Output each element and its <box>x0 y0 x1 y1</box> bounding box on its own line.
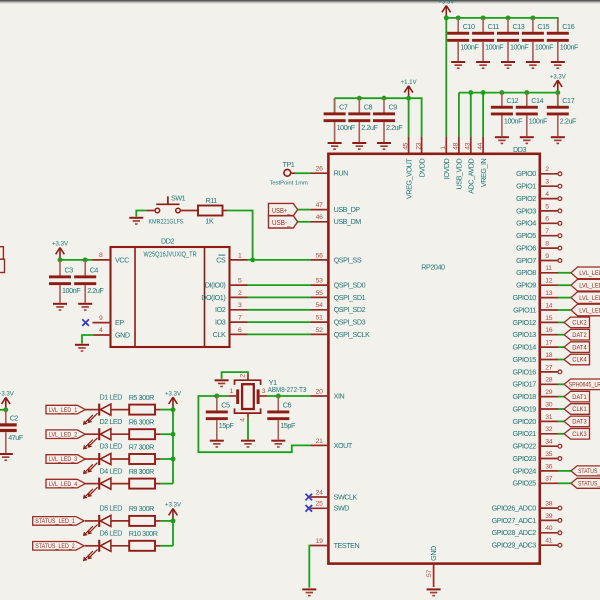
svg-text:GPIO1: GPIO1 <box>516 182 536 191</box>
svg-text:100nF: 100nF <box>460 43 479 52</box>
flag LVL_LED_2 <box>46 430 85 439</box>
flag USB-_ <box>269 216 298 228</box>
svg-text:100nF: 100nF <box>560 43 579 52</box>
svg-text:D1 LED: D1 LED <box>100 392 123 401</box>
flash pin 9 EP with no-connect cross <box>82 315 124 327</box>
RP2040 right pin 13 GPIO10 <box>513 290 558 302</box>
svg-text:+3.3V: +3.3V <box>165 502 182 509</box>
wire + flag CLK3 <box>558 429 590 440</box>
svg-text:52: 52 <box>316 327 323 334</box>
junction <box>171 432 176 437</box>
svg-text:DAT4: DAT4 <box>572 344 587 351</box>
svg-text:47uF: 47uF <box>8 433 24 442</box>
RP2040 right pin 16 GPIO13 <box>513 327 558 339</box>
RP2040 right pin 31 GPIO20 <box>513 414 558 426</box>
power symbol +1.1V supply <box>401 79 418 98</box>
svg-text:D4 LED: D4 LED <box>100 466 123 475</box>
junction <box>382 96 387 101</box>
svg-text:SW1: SW1 <box>171 193 186 202</box>
wire + flag LVL_LED_4 <box>558 304 600 316</box>
svg-text:46: 46 <box>316 214 323 221</box>
RP2040 right pin 4 GPIO2 <box>516 191 558 203</box>
wire down to VREG_IN pin 44 <box>482 93 484 137</box>
RP2040 right pin 28 GPIO17 <box>513 377 558 389</box>
svg-text:4: 4 <box>99 327 103 334</box>
svg-text:GPIO25: GPIO25 <box>513 479 537 488</box>
svg-text:R10 300R: R10 300R <box>129 529 158 538</box>
junction <box>530 15 535 20</box>
RP2040 right pin 15 GPIO12 <box>513 315 558 327</box>
wire crystal pin3 to XIN <box>267 395 310 397</box>
capacitor C16 100nF <box>547 18 579 61</box>
ground <box>451 61 465 69</box>
svg-text:C15: C15 <box>537 22 549 31</box>
RP2040 right pin 5 GPIO3 <box>516 203 558 215</box>
power symbol +3.3V supply right <box>550 73 567 92</box>
RP2040 left pin 52 QSPI_SCLK <box>310 327 370 339</box>
svg-text:LVL_LED_1: LVL_LED_1 <box>49 408 78 414</box>
svg-text:R8 300R: R8 300R <box>129 467 154 476</box>
RP2040 left pin 55 QSPI_SD1 <box>310 290 365 302</box>
flag LVL_LED_4 <box>46 479 85 488</box>
svg-text:GPIO2: GPIO2 <box>516 194 536 203</box>
wire down to USB_VDD pin 48 <box>458 93 460 137</box>
svg-text:CLK3: CLK3 <box>572 431 587 438</box>
svg-text:Y1: Y1 <box>269 378 277 387</box>
ground at SW1 <box>129 217 143 225</box>
svg-text:15: 15 <box>545 315 552 322</box>
svg-text:TP1: TP1 <box>283 160 295 169</box>
svg-text:DAT3: DAT3 <box>572 419 587 426</box>
RP2040 left pin 47 USB_DP <box>310 202 360 214</box>
junction <box>468 90 473 95</box>
svg-text:W25Q16JVUXIQ_TR: W25Q16JVUXIQ_TR <box>144 252 197 259</box>
wire +1.1V rail to DVDD pin 23 <box>335 98 422 136</box>
resistor R9 300R <box>129 504 161 526</box>
unconnected pin circle <box>558 221 562 225</box>
wire + flag CLK1 <box>558 404 590 415</box>
svg-text:2.2uF: 2.2uF <box>361 123 378 132</box>
svg-text:19: 19 <box>316 538 323 545</box>
svg-text:3: 3 <box>262 388 266 395</box>
svg-text:EP: EP <box>115 318 124 327</box>
capacitor C2 47uF <box>0 410 24 453</box>
connector remnant boxes at left edge <box>0 247 5 273</box>
LED D4 <box>84 466 130 498</box>
svg-text:40: 40 <box>545 525 552 532</box>
svg-text:GPIO21: GPIO21 <box>513 429 537 438</box>
unconnected pin circle <box>558 197 562 201</box>
RP2040 left pin 24 SWCLK <box>310 489 357 501</box>
wire +3.3V rail to C12,C14,C17 <box>459 93 558 106</box>
ground <box>78 303 92 311</box>
RP2040 right pin 6 GPIO4 <box>516 216 558 228</box>
svg-text:44: 44 <box>477 142 484 149</box>
svg-text:1: 1 <box>440 146 447 150</box>
wire + flag CLK2 <box>558 317 590 328</box>
LED D1 <box>84 392 130 424</box>
svg-text:SWCLK: SWCLK <box>334 492 358 501</box>
svg-text:C5: C5 <box>221 401 230 410</box>
wire flash to QSPI_SD2 <box>248 309 311 311</box>
wire + flag LVL_LED_3 <box>558 292 600 304</box>
svg-text:ABM8-272-T3: ABM8-272-T3 <box>268 387 307 394</box>
svg-text:8: 8 <box>545 241 549 248</box>
resistor R7 300R <box>129 442 161 464</box>
junction <box>456 15 461 20</box>
svg-text:17: 17 <box>545 340 552 347</box>
wire crystal pin2 to ground <box>222 372 248 379</box>
svg-text:47: 47 <box>316 202 323 209</box>
svg-text:3: 3 <box>545 179 549 186</box>
wire down to VREG_VOUT pin 45 <box>408 98 410 136</box>
svg-text:+1.1V: +1.1V <box>401 79 418 86</box>
LED D6 <box>84 529 130 561</box>
svg-text:13: 13 <box>545 290 552 297</box>
ground <box>53 303 67 311</box>
power symbol +3.3V supply top <box>438 0 455 18</box>
RP2040 left pin 26 RUN <box>310 166 348 178</box>
svg-text:24: 24 <box>316 489 323 496</box>
test point TP1 <box>270 160 309 187</box>
svg-text:GPIO19: GPIO19 <box>513 404 537 413</box>
junction <box>171 457 176 462</box>
power symbol +3.3V supply at STATUS LEDs <box>165 502 182 521</box>
unconnected pin circle <box>558 234 562 238</box>
svg-text:C2: C2 <box>10 414 19 423</box>
flag STATUS_LED_1 <box>33 517 84 526</box>
RP2040 left pin 53 QSPI_SD0 <box>310 278 365 290</box>
RP2040 left pin 19 TESTEN <box>310 538 359 550</box>
resistor R11 1K <box>198 196 227 225</box>
svg-text:STATUS_LED_1: STATUS_LED_1 <box>578 469 600 475</box>
ground at crystal pin 2 <box>215 379 229 387</box>
junction C2 <box>3 407 8 412</box>
svg-text:RP2040: RP2040 <box>421 263 445 272</box>
svg-text:14: 14 <box>545 302 552 309</box>
svg-text:STATUS_LED_2: STATUS_LED_2 <box>35 544 75 550</box>
RP2040 top pin 43 ADC_AVDD <box>465 137 476 194</box>
ground <box>328 142 342 150</box>
svg-text:3: 3 <box>238 302 242 309</box>
ground <box>501 61 515 69</box>
RP2040 right pin 40 GPIO28_ADC2 <box>492 525 562 537</box>
svg-text:8: 8 <box>99 252 103 259</box>
RP2040 top pin 44 VREG_IN <box>477 137 488 188</box>
svg-text:100nF: 100nF <box>337 123 356 132</box>
svg-text:2: 2 <box>545 166 549 173</box>
svg-text:D2 LED: D2 LED <box>100 417 123 426</box>
switch SW1 KMR221GLFS <box>146 193 198 225</box>
svg-text:LVL_LED_4: LVL_LED_4 <box>49 482 78 488</box>
crystal Y1 ABM8-272-T3 <box>229 374 306 422</box>
svg-text:GPIO24: GPIO24 <box>513 466 537 475</box>
flash pin 6 CLK <box>213 327 248 339</box>
capacitor C5 15pF <box>206 396 235 440</box>
ground <box>271 440 285 448</box>
svg-text:GPIO23: GPIO23 <box>513 454 537 463</box>
svg-text:C16: C16 <box>562 22 574 31</box>
ground at flash GND <box>75 344 89 352</box>
flag STATUS_LED_2 <box>33 542 84 551</box>
wire USB+_ to pin <box>298 209 311 211</box>
svg-text:30: 30 <box>545 401 552 408</box>
RP2040 left pin 46 USB_DM <box>310 214 361 226</box>
capacitor C9 2.2uF <box>373 98 403 142</box>
svg-text:2.2uF: 2.2uF <box>386 123 403 132</box>
RP2040 right pin 36 GPIO24 <box>513 463 558 475</box>
junction <box>83 257 88 262</box>
svg-text:ADC_AVDD: ADC_AVDD <box>467 158 476 193</box>
RP2040 left pin 51 QSPI_SD3 <box>310 315 365 327</box>
RP2040 right pin 35 GPIO23 <box>513 451 558 463</box>
RP2040 right pin 41 GPIO29_ADC3 <box>492 538 562 550</box>
power symbol +3.3V supply at flash <box>52 241 69 260</box>
svg-text:15pF: 15pF <box>219 421 235 430</box>
capacitor C4 2.2uF <box>74 260 104 303</box>
svg-text:2.2uF: 2.2uF <box>560 116 577 125</box>
svg-text:R6 300R: R6 300R <box>129 418 154 427</box>
svg-text:SPH0645_LRCLK: SPH0645_LRCLK <box>569 383 600 389</box>
svg-text:C6: C6 <box>283 401 292 410</box>
wire +3.3V rail LVL LEDs <box>172 410 174 484</box>
wire + flag CLK4 <box>558 354 590 365</box>
RP2040 left pin 54 QSPI_SD2 <box>310 302 365 314</box>
wire to C7 <box>334 98 336 112</box>
junction <box>506 15 511 20</box>
wire +3.3V to flash VCC <box>60 259 93 261</box>
svg-text:LVL_LED_4: LVL_LED_4 <box>579 307 600 314</box>
unconnected pin circle <box>558 184 562 188</box>
junction <box>555 90 560 95</box>
svg-text:5: 5 <box>238 278 242 285</box>
ground <box>352 142 366 150</box>
svg-text:4: 4 <box>545 191 549 198</box>
svg-text:R5 300R: R5 300R <box>129 393 154 402</box>
LED D3 <box>84 442 130 474</box>
svg-text:GPIO18: GPIO18 <box>513 392 537 401</box>
flag USB+_ <box>269 203 298 215</box>
svg-text:GPIO6: GPIO6 <box>516 244 536 253</box>
svg-text:LVL_LED_3: LVL_LED_3 <box>579 295 600 302</box>
svg-text:GND: GND <box>429 546 438 561</box>
power symbol +3.3V supply at LVL LEDs <box>165 390 182 409</box>
svg-text:45: 45 <box>402 142 409 149</box>
svg-text:TESTEN: TESTEN <box>334 541 360 550</box>
wire + flag STATUS_LED_1 <box>558 466 600 476</box>
RP2040 right pin 30 GPIO19 <box>513 401 558 413</box>
junction C5 <box>214 394 219 399</box>
svg-text:1: 1 <box>238 252 242 259</box>
wire + flag DAT3 <box>558 416 590 427</box>
ground <box>520 136 534 144</box>
wire crystal pin1/C5 loop to XOUT <box>198 396 310 452</box>
wire TESTEN to ground <box>309 546 310 588</box>
wire + flag STATUS_LED_2 <box>558 478 600 488</box>
svg-text:DVDD: DVDD <box>417 158 426 177</box>
wire crystal pin4 to ground <box>247 418 249 440</box>
svg-text:CS: CS <box>216 255 226 264</box>
wire R11 to CS net <box>227 211 253 260</box>
wire R10 to +3.3V rail <box>161 545 173 547</box>
svg-text:QSPI_SD3: QSPI_SD3 <box>334 318 366 327</box>
RP2040 right pin 2 GPIO0 <box>516 166 558 178</box>
svg-text:IOVDD: IOVDD <box>442 158 451 179</box>
capacitor C10 100nF <box>447 18 479 61</box>
wire R7 to +3.3V rail <box>161 458 173 460</box>
svg-text:GPIO14: GPIO14 <box>513 343 537 352</box>
svg-text:C7: C7 <box>339 102 348 111</box>
IC DD2 W25Q16JVUXIQ_TR flash body <box>111 237 230 347</box>
svg-text:GPIO3: GPIO3 <box>516 206 536 215</box>
svg-text:GPIO15: GPIO15 <box>513 355 537 364</box>
ground <box>526 61 540 69</box>
ground <box>476 61 490 69</box>
svg-text:2: 2 <box>239 374 246 378</box>
svg-text:GPIO4: GPIO4 <box>516 219 536 228</box>
svg-text:9: 9 <box>99 315 103 322</box>
svg-text:GPIO17: GPIO17 <box>513 380 537 389</box>
svg-text:VREG_VOUT: VREG_VOUT <box>404 158 413 199</box>
svg-text:LVL_LED_1: LVL_LED_1 <box>579 270 600 277</box>
RP2040 right pin 18 GPIO15 <box>513 352 558 364</box>
svg-text:DD3: DD3 <box>513 145 526 154</box>
svg-text:12: 12 <box>545 278 552 285</box>
svg-text:IO2: IO2 <box>215 305 226 314</box>
svg-text:GPIO13: GPIO13 <box>513 330 537 339</box>
RP2040 right pin 37 GPIO25 <box>513 476 558 488</box>
wire R8 to +3.3V rail <box>161 483 173 485</box>
junction <box>444 15 449 20</box>
junction <box>357 96 362 101</box>
svg-text:D3 LED: D3 LED <box>100 442 123 451</box>
RP2040 right pin 14 GPIO11 <box>513 302 558 314</box>
svg-text:C10: C10 <box>463 22 475 31</box>
IC DD3 RP2040 body <box>328 154 539 564</box>
wire +3.3V rail STATUS LEDs <box>172 521 174 546</box>
wire R5 to +3.3V rail <box>161 409 173 411</box>
svg-text:USB_DM: USB_DM <box>334 217 362 226</box>
svg-text:55: 55 <box>316 290 323 297</box>
wire R6 to +3.3V rail <box>161 433 173 435</box>
svg-text:CLK4: CLK4 <box>572 357 587 364</box>
capacitor C7 100nF <box>324 98 356 142</box>
svg-text:4: 4 <box>239 418 246 422</box>
wire +3.3V rail to C10..C16 <box>446 18 558 32</box>
svg-text:KMR221GLFS: KMR221GLFS <box>149 219 184 226</box>
ground <box>551 136 565 144</box>
junction <box>406 96 411 101</box>
svg-text:27: 27 <box>545 364 552 371</box>
svg-text:C11: C11 <box>488 22 500 31</box>
RP2040 left pin 56 QSPI_SS <box>310 252 361 264</box>
RP2040 left pin 20 XIN <box>310 388 344 400</box>
svg-text:C3: C3 <box>65 265 74 274</box>
junction <box>171 407 176 412</box>
svg-text:QSPI_SD2: QSPI_SD2 <box>334 305 366 314</box>
svg-text:2: 2 <box>238 290 242 297</box>
power symbol +3.3V supply at C2 <box>0 390 14 409</box>
svg-text:QSPI_SCLK: QSPI_SCLK <box>334 330 371 339</box>
wire + flag DAT4 <box>558 342 590 353</box>
svg-text:XOUT: XOUT <box>334 441 353 450</box>
wire SW1 to ground <box>136 211 146 217</box>
ground <box>495 136 509 144</box>
RP2040 bottom pin 57 GND <box>426 546 438 587</box>
svg-text:21: 21 <box>316 438 323 445</box>
flash pin 5 DI(IO0) <box>205 278 248 290</box>
svg-text:C8: C8 <box>364 102 373 111</box>
svg-text:36: 36 <box>545 463 552 470</box>
RP2040 left pin 25 SWD <box>310 501 349 513</box>
svg-text:VCC: VCC <box>115 255 129 264</box>
flag LVL_LED_3 <box>46 455 85 464</box>
capacitor C17 2.2uF <box>547 93 577 137</box>
svg-text:GPIO28_ADC2: GPIO28_ADC2 <box>492 528 537 537</box>
RP2040 right pin 11 GPIO8 <box>516 265 558 277</box>
capacitor C6 15pF <box>267 396 296 440</box>
RP2040 right pin 39 GPIO27_ADC1 <box>492 513 562 525</box>
unconnected pin circle <box>558 444 562 448</box>
RP2040 right pin 17 GPIO14 <box>513 340 558 352</box>
svg-text:QSPI_SD0: QSPI_SD0 <box>334 281 366 290</box>
svg-text:GPIO26_ADC0: GPIO26_ADC0 <box>492 504 537 513</box>
flash pin 4 GND <box>94 327 130 339</box>
wire flash to QSPI_SD0 <box>248 284 311 286</box>
svg-text:32: 32 <box>545 426 552 433</box>
ground <box>210 440 224 448</box>
svg-text:R9 300R: R9 300R <box>129 504 154 513</box>
svg-text:XIN: XIN <box>334 391 345 400</box>
RP2040 right pin 32 GPIO21 <box>513 426 558 438</box>
svg-text:+3.3V: +3.3V <box>550 73 567 80</box>
svg-text:RUN: RUN <box>334 169 348 178</box>
svg-text:DD2: DD2 <box>161 237 174 246</box>
svg-text:GPIO22: GPIO22 <box>513 442 537 451</box>
svg-text:QSPI_SS: QSPI_SS <box>334 255 362 264</box>
svg-text:53: 53 <box>316 278 323 285</box>
wire + flag DAT2 <box>558 329 590 340</box>
svg-text:DAT2: DAT2 <box>572 332 587 339</box>
capacitor C12 100nF <box>491 93 523 137</box>
RP2040 right pin 27 GPIO16 <box>513 364 558 376</box>
wire + flag SPH0645_LRCLK <box>558 379 600 390</box>
svg-text:6: 6 <box>545 216 549 223</box>
svg-text:D6 LED: D6 LED <box>100 529 123 538</box>
RP2040 top pin 23 DVDD <box>415 137 426 178</box>
flash pin 7 IO3 <box>215 315 247 327</box>
svg-text:C4: C4 <box>90 265 99 274</box>
svg-text:GND: GND <box>115 330 130 339</box>
RP2040 right pin 3 GPIO1 <box>516 179 558 191</box>
RP2040 right pin 7 GPIO5 <box>516 228 558 240</box>
capacitor C3 100nF <box>49 260 81 303</box>
svg-text:GPIO7: GPIO7 <box>516 256 536 265</box>
svg-text:34: 34 <box>545 439 552 446</box>
wire to left edge <box>0 409 6 411</box>
svg-text:TestPoint 1mm: TestPoint 1mm <box>270 181 309 187</box>
RP2040 left pin 21 XOUT <box>310 438 352 450</box>
svg-text:+3.3V: +3.3V <box>0 390 14 397</box>
RP2040 top pin 48 USB_VDD <box>453 137 464 190</box>
svg-text:1: 1 <box>230 388 234 395</box>
svg-text:USB+_: USB+_ <box>272 208 291 215</box>
svg-text:GPIO9: GPIO9 <box>516 281 536 290</box>
svg-text:DI(IO0): DI(IO0) <box>205 281 225 290</box>
svg-text:56: 56 <box>316 252 323 259</box>
RP2040 right pin 9 GPIO7 <box>516 253 558 265</box>
svg-text:100nF: 100nF <box>504 116 523 125</box>
